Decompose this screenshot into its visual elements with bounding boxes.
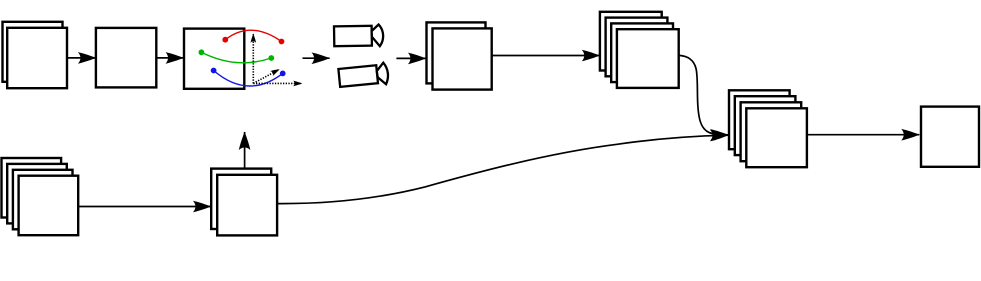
camera icon bottom	[338, 62, 389, 88]
block E: feature stack (4 squares)	[600, 12, 679, 88]
wire: arrow C to cameras	[303, 57, 330, 59]
wire: long curve I to merge arrow into F	[277, 135, 728, 203]
wire: arrow B to C	[157, 57, 184, 59]
block H: bottom-left history stack (4 squares)	[2, 158, 79, 235]
axis: dashed diagonal arrow (up-right)	[253, 69, 279, 83]
wire: arrow F to G	[807, 134, 919, 136]
camera icon top	[334, 24, 383, 46]
axis: dashed vertical arrow (up)	[252, 34, 254, 83]
wire: arrow cameras to D	[396, 57, 426, 59]
wire: curve E down to merge arrow into F	[679, 55, 729, 134]
block G: output square	[921, 107, 979, 167]
wire: up arrow out of block I	[244, 132, 246, 169]
wire: arrow A to B	[67, 57, 96, 59]
trajectory blue curve with endpoint dots	[211, 68, 286, 86]
wire: long arrow D to E	[492, 55, 600, 57]
wire: arrow H to I	[78, 206, 211, 208]
block I: bottom stack (2 squares)	[211, 169, 277, 236]
trajectory red curve with endpoint dots	[222, 30, 284, 44]
block C: trajectory square	[184, 29, 244, 89]
block F: merged stack (4 squares)	[729, 90, 807, 167]
block A: input frame stack (2 squares) top-left	[3, 22, 68, 88]
block D: stereo frame stack (2 squares)	[427, 22, 492, 89]
trajectory green curve with endpoint dots	[199, 49, 275, 62]
block B: processing square	[96, 28, 156, 88]
axis: dashed horizontal arrow (right)	[253, 82, 302, 84]
